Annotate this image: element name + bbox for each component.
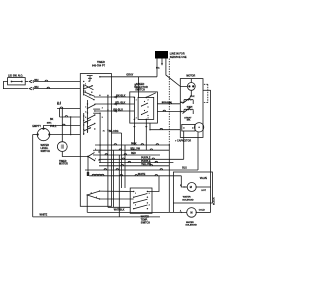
svg-text:SOLENOID: SOLENOID bbox=[185, 225, 197, 227]
svg-text:WH: WH bbox=[34, 86, 38, 89]
svg-text:2: 2 bbox=[148, 100, 149, 102]
svg-text:LID SW. N.O.: LID SW. N.O. bbox=[8, 75, 23, 78]
svg-text:BK-BLK: BK-BLK bbox=[116, 94, 125, 97]
svg-text:4: 4 bbox=[148, 117, 149, 120]
svg-text:3: 3 bbox=[85, 91, 86, 93]
svg-text:BLU: BLU bbox=[182, 168, 187, 170]
svg-text:MOTOR: MOTOR bbox=[186, 75, 195, 78]
svg-text:BLACK: BLACK bbox=[213, 197, 216, 205]
svg-text:4: 4 bbox=[85, 110, 86, 113]
svg-text:PURPLE: PURPLE bbox=[141, 161, 151, 163]
svg-text:WATER: WATER bbox=[141, 216, 149, 219]
svg-text:SOLENOID: SOLENOID bbox=[182, 199, 194, 201]
svg-text:8: 8 bbox=[85, 121, 86, 123]
svg-text:TEMP.: TEMP. bbox=[141, 220, 148, 222]
svg-text:PINK: PINK bbox=[131, 143, 137, 145]
svg-text:EMPTY: EMPTY bbox=[32, 125, 41, 128]
svg-text:GRAY: GRAY bbox=[126, 73, 133, 76]
svg-text:NO.: NO. bbox=[156, 67, 160, 69]
svg-text:SW.: SW. bbox=[187, 120, 191, 122]
svg-text:MAIN: MAIN bbox=[187, 105, 193, 108]
svg-text:3: 3 bbox=[136, 118, 137, 120]
svg-text:RED: RED bbox=[131, 153, 136, 155]
svg-text:HOT: HOT bbox=[201, 190, 206, 192]
svg-text:+ CAPACITOR: + CAPACITOR bbox=[175, 140, 191, 143]
svg-text:SERVICE USE: SERVICE USE bbox=[170, 56, 187, 59]
svg-text:WHT-BLK: WHT-BLK bbox=[114, 210, 125, 212]
svg-text:WATER: WATER bbox=[186, 221, 194, 224]
svg-text:2: 2 bbox=[149, 193, 150, 195]
svg-text:5: 5 bbox=[102, 117, 103, 119]
svg-text:YEL-BLK: YEL-BLK bbox=[115, 101, 126, 104]
svg-text:WH: WH bbox=[34, 79, 38, 82]
svg-text:M: M bbox=[190, 185, 192, 189]
svg-text:BK-ORG: BK-ORG bbox=[109, 130, 119, 133]
svg-text:WHITE: WHITE bbox=[40, 214, 48, 217]
svg-text:M: M bbox=[190, 211, 192, 215]
svg-text:SWITCH: SWITCH bbox=[141, 223, 150, 225]
svg-text:WATER: WATER bbox=[183, 196, 191, 199]
svg-text:5: 5 bbox=[90, 95, 91, 97]
svg-text:2: 2 bbox=[95, 149, 96, 151]
svg-text:BRN-BLK: BRN-BLK bbox=[162, 102, 172, 104]
svg-text:3: 3 bbox=[102, 107, 103, 109]
svg-text:1: 1 bbox=[136, 100, 137, 102]
svg-text:6: 6 bbox=[85, 117, 86, 119]
svg-text:6: 6 bbox=[96, 197, 97, 199]
svg-text:7: 7 bbox=[95, 158, 96, 160]
svg-text:SW1: SW1 bbox=[47, 123, 53, 125]
svg-text:3: 3 bbox=[135, 205, 136, 207]
svg-text:1: 1 bbox=[135, 193, 136, 195]
svg-text:MOTOR: MOTOR bbox=[59, 163, 68, 166]
svg-text:SWITCH: SWITCH bbox=[135, 89, 145, 92]
svg-text:COLD: COLD bbox=[199, 210, 206, 212]
svg-text:BK: BK bbox=[50, 119, 54, 121]
svg-text:4: 4 bbox=[149, 204, 150, 207]
svg-text:SWITCH: SWITCH bbox=[41, 150, 51, 153]
svg-text:4: 4 bbox=[91, 192, 92, 195]
svg-text:3C: 3C bbox=[103, 131, 106, 133]
svg-text:YELLOW: YELLOW bbox=[141, 164, 152, 166]
svg-text:L1: L1 bbox=[57, 104, 60, 106]
svg-text:1: 1 bbox=[85, 84, 86, 86]
svg-text:FULL: FULL bbox=[50, 125, 57, 128]
svg-text:PURPLE: PURPLE bbox=[141, 158, 151, 160]
svg-text:AUX: AUX bbox=[190, 95, 195, 98]
svg-text:1T: 1T bbox=[89, 128, 92, 130]
svg-text:TIMER: TIMER bbox=[97, 61, 105, 64]
svg-text:YELLOW: YELLOW bbox=[130, 148, 141, 150]
svg-text:2: 2 bbox=[85, 107, 86, 109]
svg-text:VALVE: VALVE bbox=[200, 177, 208, 180]
svg-text:WHITE: WHITE bbox=[138, 174, 146, 176]
svg-text:640-784 PT: 640-784 PT bbox=[92, 65, 106, 68]
svg-text:VIO-BLU: VIO-BLU bbox=[113, 108, 123, 111]
